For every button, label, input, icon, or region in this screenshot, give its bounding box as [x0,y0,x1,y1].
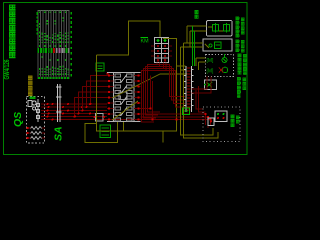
label text QS red [28,75,33,78]
svg-text:[M]: [M] [207,69,215,75]
aux contact block SA lower [94,114,106,122]
lamp HL green [224,54,226,58]
heater resistor R2 [31,132,42,135]
lamp HL red [222,67,228,73]
junction dots right [149,107,211,120]
title text [9,5,15,6]
indicator lamp box [206,54,234,77]
limit switch box SQ [203,39,232,51]
contactor KM [151,38,172,63]
wire KM loops [142,63,186,123]
label motor text [231,114,235,117]
wire green right [193,26,195,66]
heater resistor R1 [31,127,42,130]
heater resistor R3 [31,137,42,140]
svg-text:[M]: [M] [207,58,215,64]
motor M [100,125,111,138]
aux switch box [204,80,216,90]
svg-text:QS: QS [12,112,24,127]
label KM [141,38,150,45]
terminal strip XT2 [184,66,194,112]
label text extras [238,70,242,73]
fuse box FU [207,21,233,37]
disconnect switch QS [27,97,45,144]
svg-text:KM: KM [141,39,150,45]
label lamp circuit [238,53,242,56]
label FU [195,9,199,12]
control switch SA [107,73,141,122]
svg-text:SA: SA [53,126,65,141]
wire red lamp to strip [192,77,212,113]
wire bus QS-SA [41,104,180,120]
electromagnet box YA [203,107,240,142]
label limit circuit [236,39,240,42]
label heater circuit [236,16,240,19]
wire risers bus to SA upper rows [75,76,108,117]
junction dots risers [74,103,92,118]
junction dots bus [47,103,92,121]
label aux circuit [237,76,241,79]
wire yellow right bundle [163,26,218,138]
label M box [183,108,190,115]
label text underlays [9,5,15,59]
svg-text:GW4/126: GW4/126 [4,59,11,79]
terminal table XT1 [36,11,72,80]
wire yellow SA diagonal [112,74,187,120]
wire yellow motor loop [85,21,177,143]
auxiliary contact block [96,63,109,75]
wire red SA to right [141,76,211,129]
cabinet boundary line [56,84,61,122]
junction dots heater [26,127,28,139]
wire heater feeds [27,128,45,138]
